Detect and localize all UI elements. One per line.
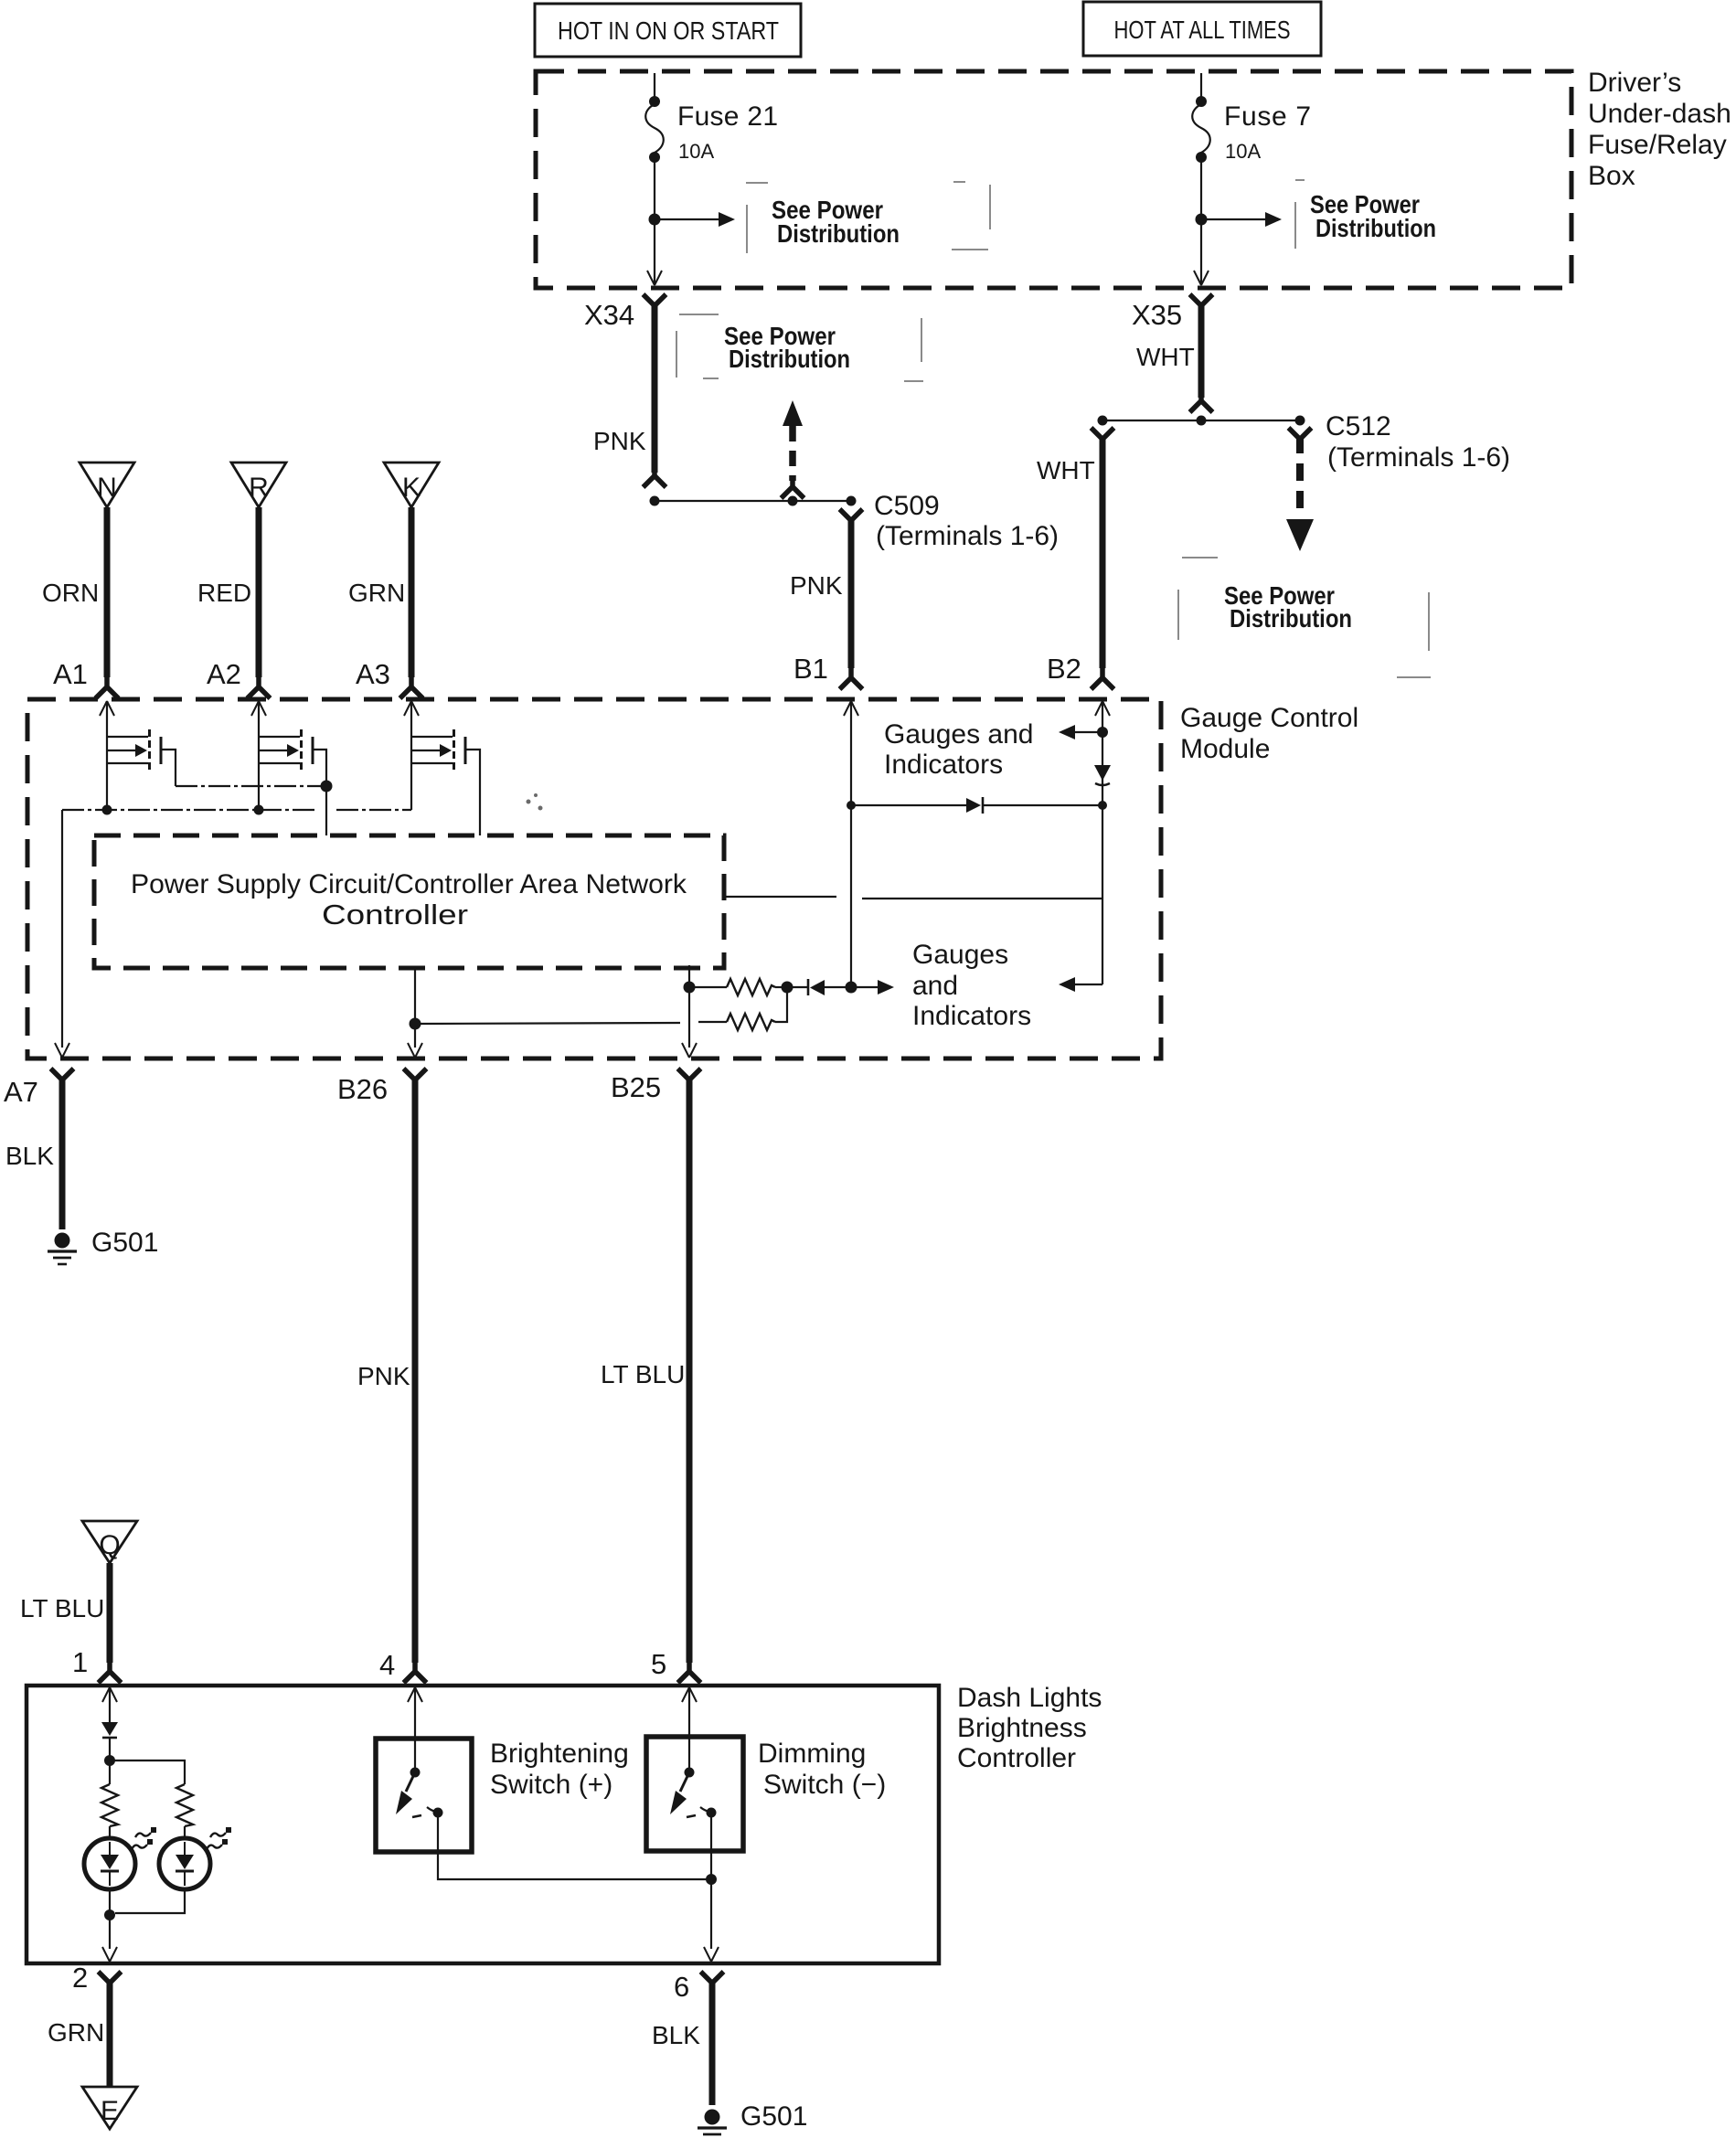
connector: A2 fork bbox=[248, 675, 271, 698]
transistor Q1 (A1 driver) bbox=[107, 701, 176, 810]
label: Driver's Under-dash Fuse/Relay Box bbox=[1588, 68, 1731, 191]
wire B1 internal drop bbox=[850, 701, 852, 987]
svg-text:Module: Module bbox=[1180, 734, 1270, 764]
node: fuse 7 bottom bbox=[1196, 152, 1207, 163]
node: switches common junction bbox=[706, 1874, 717, 1885]
svg-text:Gauge Control: Gauge Control bbox=[1180, 703, 1358, 733]
svg-text:(Terminals 1-6): (Terminals 1-6) bbox=[1327, 442, 1510, 473]
svg-text:K: K bbox=[402, 473, 421, 503]
dashed arrow up to See Power Distribution bbox=[782, 400, 804, 498]
svg-text:LT BLU: LT BLU bbox=[20, 1594, 104, 1622]
svg-text:Q: Q bbox=[99, 1530, 120, 1560]
label: Dimming Switch (-) bbox=[758, 1739, 886, 1800]
switch SW1 (brightening) bbox=[396, 1768, 443, 1818]
diode D4 on pin1 (pointing down) bbox=[101, 1722, 118, 1738]
wire LT BLU from Q to pin 1 bbox=[107, 1563, 113, 1663]
label: Gauge Control Module bbox=[1180, 703, 1358, 764]
wire: branch arrow to See Power Distribution bbox=[1201, 212, 1282, 227]
diode D3 (pointing left) with wire bbox=[787, 979, 851, 995]
Dimming Switch box bbox=[646, 1737, 743, 1851]
exit arrow at fuse box edge (X34) bbox=[647, 271, 662, 285]
lamp LED2 bbox=[159, 1838, 210, 1889]
connector: pin 6 fork bbox=[701, 1972, 724, 1994]
svg-text:ORN: ORN bbox=[42, 579, 99, 607]
svg-text:Gauges and: Gauges and bbox=[884, 719, 1033, 750]
Brightening Switch box bbox=[376, 1739, 472, 1852]
svg-text:2: 2 bbox=[72, 1962, 88, 1994]
wire GRN pin2 to E bbox=[107, 1980, 113, 2089]
svg-text:GRN: GRN bbox=[348, 579, 405, 607]
power source label box: HOT IN ON OR START bbox=[535, 4, 801, 57]
junction on line (up arrow) bbox=[788, 496, 798, 506]
node Q (triangle connector) bbox=[82, 1521, 137, 1563]
svg-text:PNK: PNK bbox=[357, 1362, 410, 1390]
Dash Lights Brightness Controller (solid enclosure) bbox=[27, 1686, 939, 1963]
wire: Q1 source to junction bbox=[176, 785, 326, 787]
pin B25 exit arrow bbox=[682, 1043, 697, 1058]
wire pin 4 to switch pivot bbox=[414, 1687, 416, 1769]
connector: B1 fork bbox=[840, 666, 863, 689]
label: Dash Lights Brightness Controller bbox=[957, 1683, 1102, 1773]
svg-text:X34: X34 bbox=[584, 299, 634, 331]
svg-text:Fuse 21: Fuse 21 bbox=[677, 101, 778, 132]
label: C509 (Terminals 1-6) bbox=[874, 491, 1059, 551]
junction on line (C509) bbox=[847, 496, 857, 506]
svg-text:Distribution: Distribution bbox=[777, 219, 900, 248]
wire BLK pin6 to ground bbox=[709, 1980, 716, 2105]
note: See Power Distribution (right) bbox=[1178, 558, 1431, 677]
svg-text:Fuse 7: Fuse 7 bbox=[1224, 101, 1311, 132]
node N (triangle connector) bbox=[80, 463, 134, 507]
svg-text:A1: A1 bbox=[53, 658, 88, 690]
connector: A7 fork bbox=[51, 1069, 74, 1091]
Power Supply Circuit/CAN Controller (dashed box) bbox=[94, 835, 724, 968]
svg-text:Distribution: Distribution bbox=[1315, 214, 1436, 242]
svg-text:R: R bbox=[249, 473, 269, 503]
pin A7 exit arrow bbox=[55, 1043, 69, 1058]
svg-text:G501: G501 bbox=[740, 2101, 807, 2132]
svg-text:PNK: PNK bbox=[790, 571, 843, 600]
wire PNK to B1 bbox=[848, 517, 855, 668]
connector: B26 fork bbox=[404, 1069, 427, 1091]
wire SW2 contact down to pin 6 bbox=[710, 1813, 712, 1949]
node: B25 junction bbox=[684, 982, 696, 994]
wire fuse7 branch down to box edge X35 bbox=[1200, 219, 1202, 284]
junction: rail at A1 wire (open) bbox=[102, 805, 112, 815]
connector C512 (fork) bbox=[1289, 428, 1312, 451]
svg-text:10A: 10A bbox=[1225, 140, 1261, 163]
resistor R4 (right lamp) bbox=[176, 1784, 193, 1826]
wire: B25 junction to resistor R1 bbox=[689, 986, 727, 988]
wire fuse21 branch down to box edge X34 bbox=[654, 219, 655, 284]
svg-text:Under-dash: Under-dash bbox=[1588, 99, 1731, 129]
label: C512 (Terminals 1-6) bbox=[1326, 411, 1510, 473]
pin B26 exit arrow bbox=[408, 1043, 422, 1058]
svg-text:N: N bbox=[97, 473, 117, 503]
wire B26 internal: controller to pin bbox=[414, 968, 416, 1048]
wire branch to right LED bbox=[110, 1760, 185, 1784]
pin 4 entry arrow bbox=[408, 1687, 422, 1702]
pin A3 entry arrow bbox=[404, 701, 419, 716]
wire R4 to LED2 bbox=[184, 1826, 186, 1839]
wire node line at y548 bbox=[655, 500, 851, 502]
fuse F21 element (wavy) bbox=[645, 104, 664, 153]
svg-text:WHT: WHT bbox=[1037, 456, 1095, 484]
svg-text:A2: A2 bbox=[207, 658, 241, 690]
wire: R2 up to R1 line bbox=[775, 987, 787, 1022]
svg-text:Switch (+): Switch (+) bbox=[490, 1770, 612, 1800]
connector: X35 lower fork bbox=[1190, 389, 1213, 412]
wire node line at y460 bbox=[1102, 420, 1300, 421]
node K (triangle connector) bbox=[384, 463, 439, 507]
wire junction to pin 2 bbox=[109, 1915, 111, 1949]
node: fuse 21 bottom bbox=[649, 152, 660, 163]
node: LED bottom junction bbox=[104, 1909, 115, 1920]
connector X34 (fork at fuse box exit) bbox=[644, 294, 666, 317]
svg-text:Distribution: Distribution bbox=[1230, 604, 1352, 633]
label: Gauges and Indicators (lower) bbox=[912, 940, 1031, 1031]
node: Q2 source junction bbox=[321, 781, 333, 792]
svg-text:Switch (−): Switch (−) bbox=[763, 1770, 886, 1800]
junction (C512) bbox=[1295, 416, 1305, 426]
svg-text:A3: A3 bbox=[356, 658, 390, 690]
svg-text:Gauges: Gauges bbox=[912, 940, 1008, 970]
pin 6 exit arrow bbox=[704, 1947, 719, 1962]
node: fuse 7 branch junction bbox=[1196, 214, 1208, 226]
connector C509 (fork) bbox=[840, 509, 863, 532]
wire down to left resistor bbox=[109, 1760, 111, 1784]
ground G501 (right) bbox=[698, 2110, 727, 2135]
switch SW2 (dimming) bbox=[670, 1768, 717, 1818]
wire PNK X34 down bbox=[652, 303, 658, 473]
junction B1 x y881 (open) bbox=[847, 801, 856, 810]
light squiggles LED1 bbox=[132, 1827, 156, 1849]
resistor R1 bbox=[727, 979, 775, 995]
node R (triangle connector) bbox=[231, 463, 286, 507]
svg-text:Dimming: Dimming bbox=[758, 1739, 866, 1769]
svg-text:B26: B26 bbox=[337, 1073, 388, 1105]
speckle marks bbox=[527, 793, 543, 811]
pin B1 entry arrow bbox=[844, 701, 858, 716]
wire from box top to fuse 7 bbox=[1200, 73, 1202, 98]
wire GRN from K to A3 bbox=[409, 507, 415, 677]
junction (WHT drop) bbox=[1098, 416, 1108, 426]
connector: X34 wire lower end fork bbox=[644, 464, 666, 487]
connector: B2 fork bbox=[1092, 666, 1114, 689]
svg-text:Indicators: Indicators bbox=[884, 750, 1003, 780]
svg-text:B2: B2 bbox=[1047, 653, 1081, 685]
Driver's Under-dash Fuse/Relay Box (dashed enclosure) bbox=[536, 71, 1571, 288]
junction on line (X34) bbox=[650, 496, 660, 506]
transistor Q2 (A2 driver) bbox=[259, 701, 326, 810]
wire from controller to B2 drop (y982) bbox=[724, 897, 1102, 899]
pin 2 exit arrow bbox=[102, 1947, 117, 1962]
note: See Power Distribution (mid) bbox=[676, 314, 923, 381]
svg-text:Fuse/Relay: Fuse/Relay bbox=[1588, 130, 1727, 160]
wire: B26 junction to resistor R2 bbox=[415, 1022, 727, 1024]
wire LT BLU B25 to pin 5 bbox=[687, 1077, 693, 1663]
note: See Power Distribution (fuse 7) bbox=[1295, 180, 1436, 249]
wire pin1 down bbox=[109, 1687, 111, 1722]
pin A2 entry arrow bbox=[251, 701, 266, 716]
wire: arrow to Gauges and Indicators (upper) bbox=[1059, 725, 1102, 739]
dashed arrow down to See Power Distribution bbox=[1286, 436, 1314, 551]
svg-text:C512: C512 bbox=[1326, 411, 1391, 441]
svg-text:RED: RED bbox=[197, 579, 251, 607]
svg-text:BLK: BLK bbox=[5, 1142, 54, 1170]
resistor R2 bbox=[727, 1014, 775, 1030]
svg-text:B25: B25 bbox=[611, 1071, 661, 1103]
wire: junction down to controller box bbox=[325, 786, 327, 835]
svg-text:6: 6 bbox=[674, 1971, 689, 2003]
connector: pin 5 fork bbox=[678, 1660, 701, 1683]
resistor R3 (left lamp) bbox=[101, 1784, 118, 1826]
svg-text:Driver’s: Driver’s bbox=[1588, 68, 1681, 98]
node: fuse 21 branch junction bbox=[649, 214, 661, 226]
wire: branch arrow to See Power Distribution bbox=[655, 212, 735, 227]
power source label box: HOT AT ALL TIMES bbox=[1083, 2, 1321, 56]
svg-text:C509: C509 bbox=[874, 491, 940, 521]
svg-text:4: 4 bbox=[379, 1649, 395, 1681]
svg-text:Brightening: Brightening bbox=[490, 1739, 629, 1769]
svg-text:Dash Lights: Dash Lights bbox=[957, 1683, 1102, 1713]
svg-text:(Terminals 1-6): (Terminals 1-6) bbox=[876, 521, 1059, 551]
svg-text:5: 5 bbox=[651, 1648, 666, 1680]
pin A1 entry arrow bbox=[100, 701, 114, 716]
svg-text:Brightness: Brightness bbox=[957, 1713, 1087, 1743]
label: Power Supply Circuit/Controller Area Network Controller bbox=[131, 869, 687, 931]
node: B1 bottom junction bbox=[846, 982, 857, 994]
svg-text:Indicators: Indicators bbox=[912, 1001, 1031, 1031]
svg-text:B1: B1 bbox=[793, 653, 828, 685]
connector: A1 fork bbox=[96, 675, 119, 698]
wire fuse7 to branch node bbox=[1200, 161, 1202, 219]
wire B25 internal: controller to pin bbox=[688, 965, 690, 1048]
wire: arrow right to gauges bbox=[851, 980, 894, 995]
node: fuse 7 top bbox=[1196, 96, 1207, 107]
svg-text:X35: X35 bbox=[1132, 299, 1182, 331]
junction: rail at A2 wire (open) bbox=[254, 805, 264, 815]
wire: gate rail bbox=[62, 809, 411, 811]
svg-text:HOT IN ON OR START: HOT IN ON OR START bbox=[558, 16, 779, 45]
wire WHT down to B2 bbox=[1100, 436, 1106, 668]
fuse F7 element (wavy) bbox=[1192, 104, 1210, 153]
wire LED1 down bbox=[109, 1888, 111, 1915]
wire SW1 contact down and right to junction bbox=[438, 1813, 711, 1879]
svg-text:Controller: Controller bbox=[322, 899, 468, 931]
connector: WHT drop fork bbox=[1092, 428, 1114, 451]
wire: B2 corner arrow to Gauges and Indicators (lower) bbox=[1059, 977, 1102, 992]
node: B26 branch junction bbox=[410, 1018, 421, 1030]
note: See Power Distribution (fuse 21) bbox=[746, 182, 990, 253]
label: Gauges and Indicators (upper) bbox=[884, 719, 1033, 780]
connector X35 (fork at fuse box exit) bbox=[1190, 294, 1213, 317]
wire R3 to LED1 bbox=[109, 1826, 111, 1839]
svg-text:HOT AT ALL TIMES: HOT AT ALL TIMES bbox=[1114, 16, 1291, 44]
pin B2 entry arrow bbox=[1095, 701, 1110, 716]
lamp LED1 bbox=[84, 1838, 135, 1889]
ground G501 (left) bbox=[48, 1233, 77, 1265]
svg-text:Controller: Controller bbox=[957, 1743, 1076, 1773]
node: R1/R2 junction bbox=[782, 982, 793, 994]
connector: pin 2 fork bbox=[99, 1972, 122, 1994]
light squiggles LED2 bbox=[207, 1827, 231, 1849]
Gauge Control Module (dashed enclosure) bbox=[27, 699, 1161, 1058]
svg-text:LT BLU: LT BLU bbox=[601, 1360, 685, 1388]
wire WHT X35 down bbox=[1198, 303, 1205, 398]
wire ORN from N to A1 bbox=[104, 507, 111, 677]
svg-text:Box: Box bbox=[1588, 161, 1635, 191]
connector: pin 4 fork bbox=[404, 1660, 427, 1683]
label: Brightening Switch (+) bbox=[490, 1739, 629, 1800]
wire fuse21 to branch node bbox=[654, 161, 655, 219]
wire: rail down to A7 bbox=[61, 810, 63, 1048]
svg-text:G501: G501 bbox=[91, 1228, 158, 1258]
junction (X35) bbox=[1197, 416, 1207, 426]
node: LED branch junction bbox=[104, 1755, 115, 1766]
pin 1 entry arrow bbox=[102, 1687, 117, 1702]
svg-text:GRN: GRN bbox=[48, 2018, 104, 2047]
connector: A3 fork bbox=[400, 675, 423, 698]
node E (triangle connector) bbox=[82, 2087, 137, 2129]
wire B2 internal drop bbox=[1102, 701, 1103, 984]
connector: pin 1 fork bbox=[99, 1660, 122, 1683]
wire R1 to junction bbox=[775, 986, 787, 988]
junction B2 x y881 (open) bbox=[1098, 801, 1107, 810]
node: fuse 21 top bbox=[649, 96, 660, 107]
svg-text:Power Supply Circuit/Controlle: Power Supply Circuit/Controller Area Net… bbox=[131, 869, 687, 899]
pin 5 entry arrow bbox=[682, 1687, 697, 1702]
wire y881 with diode D2 (pointing right) bbox=[851, 797, 1102, 814]
wire RED from R to A2 bbox=[256, 507, 262, 677]
wire PNK B26 to pin 4 bbox=[412, 1077, 419, 1663]
svg-text:E: E bbox=[101, 2096, 119, 2126]
svg-text:Distribution: Distribution bbox=[729, 345, 850, 373]
connector: B25 fork bbox=[678, 1069, 701, 1091]
wire from box top to fuse 21 bbox=[654, 73, 655, 98]
svg-text:10A: 10A bbox=[678, 140, 714, 163]
exit arrow at fuse box edge (X35) bbox=[1194, 271, 1209, 285]
svg-text:and: and bbox=[912, 971, 958, 1001]
svg-text:A7: A7 bbox=[4, 1076, 38, 1108]
svg-text:PNK: PNK bbox=[593, 427, 646, 455]
transistor Q3 (A3 driver) bbox=[411, 701, 480, 835]
wire LED2 down and left bbox=[115, 1888, 185, 1913]
svg-text:BLK: BLK bbox=[652, 2021, 700, 2049]
diode D1 on B2 drop (pointing down) bbox=[1094, 765, 1111, 785]
wire pin 5 to switch pivot bbox=[688, 1687, 690, 1769]
wire BLK from A7 to ground bbox=[59, 1077, 66, 1229]
wire to LED branch junction bbox=[109, 1738, 111, 1760]
svg-text:WHT: WHT bbox=[1136, 343, 1195, 371]
svg-text:1: 1 bbox=[72, 1646, 88, 1678]
node: B2 branch to gauges bbox=[1097, 727, 1108, 738]
